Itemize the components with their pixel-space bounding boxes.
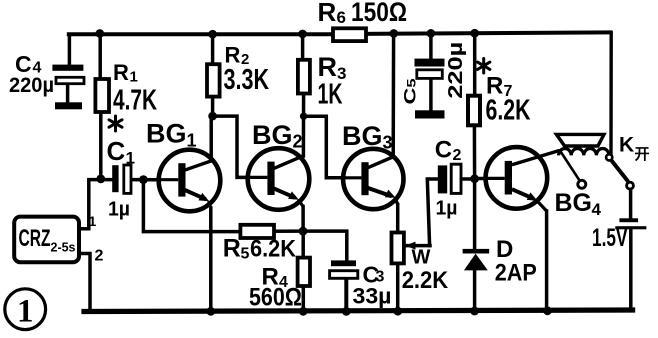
svg-text:R: R xyxy=(113,60,129,85)
svg-text:6.2K: 6.2K xyxy=(250,236,297,263)
svg-text:开: 开 xyxy=(635,146,650,163)
svg-text:33µ: 33µ xyxy=(353,284,392,309)
svg-text:2: 2 xyxy=(293,132,303,152)
svg-text:1: 1 xyxy=(187,131,197,151)
svg-text:5: 5 xyxy=(241,246,250,263)
svg-text:3.3K: 3.3K xyxy=(224,64,270,96)
svg-text:2AP: 2AP xyxy=(495,260,537,287)
svg-text:R: R xyxy=(318,0,337,27)
svg-text:BG: BG xyxy=(555,189,593,217)
svg-text:560Ω: 560Ω xyxy=(249,284,302,312)
svg-text:4.7K: 4.7K xyxy=(113,85,157,117)
svg-text:1µ: 1µ xyxy=(108,199,130,221)
svg-text:C: C xyxy=(435,137,452,164)
svg-text:2-5s: 2-5s xyxy=(51,240,76,255)
svg-text:6: 6 xyxy=(337,8,346,27)
svg-text:W: W xyxy=(412,247,431,269)
svg-text:CRZ: CRZ xyxy=(19,225,51,252)
svg-text:1: 1 xyxy=(126,149,135,168)
svg-text:1K: 1K xyxy=(318,79,343,111)
svg-text:2.2K: 2.2K xyxy=(402,267,449,294)
svg-text:C: C xyxy=(107,136,126,166)
svg-text:1: 1 xyxy=(130,69,138,86)
svg-text:K: K xyxy=(619,134,634,157)
svg-text:1: 1 xyxy=(17,294,34,330)
svg-text:BG: BG xyxy=(146,119,187,149)
svg-text:1.5V: 1.5V xyxy=(592,224,628,252)
svg-text:220µ: 220µ xyxy=(445,42,467,99)
svg-text:R: R xyxy=(318,52,338,82)
svg-text:R: R xyxy=(223,235,241,263)
svg-text:6.2K: 6.2K xyxy=(486,95,531,127)
svg-text:1µ: 1µ xyxy=(436,198,458,220)
svg-text:2: 2 xyxy=(453,147,462,164)
svg-text:BG: BG xyxy=(252,120,293,150)
svg-text:1: 1 xyxy=(89,213,97,229)
svg-text:2: 2 xyxy=(95,248,104,265)
svg-text:150Ω: 150Ω xyxy=(351,0,407,27)
svg-text:4: 4 xyxy=(592,200,602,219)
svg-text:220µ: 220µ xyxy=(9,74,54,97)
svg-text:3: 3 xyxy=(383,133,393,153)
svg-text:BG: BG xyxy=(342,121,383,151)
